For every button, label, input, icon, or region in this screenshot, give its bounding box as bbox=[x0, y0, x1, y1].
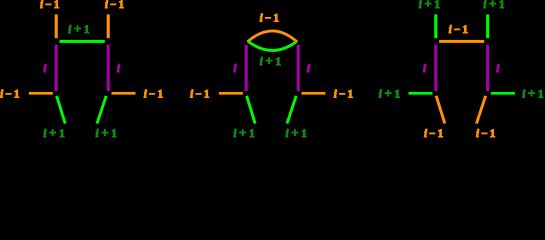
fig2 strand bottom-right diagonal bbox=[287, 96, 296, 124]
svg-text:i−1: i−1 bbox=[260, 12, 280, 24]
fig2 strand lower arc green bbox=[249, 42, 295, 50]
fig1 strand left vertical purple bbox=[55, 45, 58, 91]
fig1 strand side-left horizontal bbox=[29, 92, 53, 95]
fig3 strand bottom-left diagonal bbox=[436, 96, 445, 124]
fig3 strand top-left vertical bbox=[434, 14, 437, 38]
fig1 strand side-right horizontal bbox=[112, 92, 136, 95]
fig3 strand left vertical purple bbox=[434, 45, 437, 91]
fig2 strand bottom-left diagonal bbox=[247, 96, 256, 124]
fig2 strand side-right horizontal bbox=[302, 92, 326, 95]
svg-text:i−1: i−1 bbox=[334, 89, 354, 101]
fig3 strand bottom-right diagonal bbox=[476, 96, 485, 124]
svg-text:i−1: i−1 bbox=[0, 89, 20, 101]
svg-text:i−1: i−1 bbox=[449, 24, 469, 36]
svg-text:i−1: i−1 bbox=[105, 0, 125, 11]
fig3 strand side-right horizontal bbox=[491, 92, 515, 95]
fig3 strand right vertical purple bbox=[486, 45, 489, 91]
fig2 strand top arc orange bbox=[248, 31, 296, 41]
fig3 strand middle horizontal bbox=[439, 40, 484, 43]
fig1 strand top-right vertical bbox=[107, 14, 110, 38]
fig3 strand top-right vertical bbox=[486, 14, 489, 38]
svg-text:i−1: i−1 bbox=[190, 89, 210, 101]
fig1 strand top-left vertical bbox=[55, 14, 58, 38]
fig1 strand right vertical purple bbox=[107, 45, 110, 91]
fig3 strand side-left horizontal bbox=[409, 92, 433, 95]
svg-text:i−1: i−1 bbox=[424, 128, 444, 140]
fig1 strand bottom-left diagonal bbox=[57, 96, 66, 124]
fig2 strand side-left horizontal bbox=[219, 92, 243, 95]
fig1 strand bottom-right diagonal bbox=[97, 96, 106, 124]
fig2 strand right vertical purple bbox=[297, 45, 300, 91]
svg-text:i−1: i−1 bbox=[476, 128, 496, 140]
svg-text:i−1: i−1 bbox=[40, 0, 60, 11]
fig2 strand left vertical purple bbox=[245, 45, 248, 91]
fig1 strand middle horizontal bbox=[60, 40, 105, 43]
svg-text:i−1: i−1 bbox=[144, 89, 164, 101]
